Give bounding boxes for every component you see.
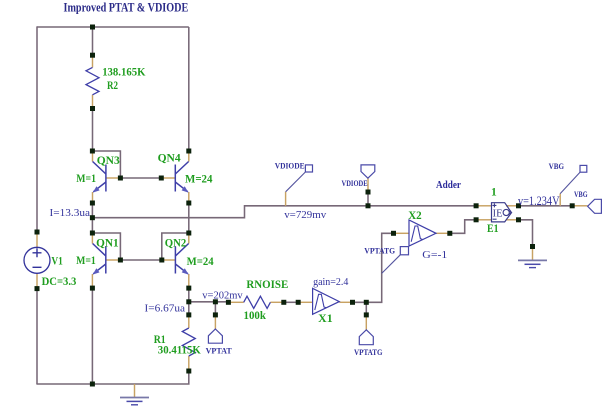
- wire QN3em-QN1col column: [91, 203, 93, 233]
- wire QN3 collector-base loop: [92, 151, 120, 178]
- pin lead QN3 emitter: [92, 192, 94, 203]
- pin lead ground E1: [532, 247, 534, 260]
- transistor QN1: [93, 244, 106, 274]
- wire E1 bottom output to ground: [519, 220, 533, 247]
- wire QN4em-QN2col: [188, 203, 190, 233]
- wire QN1 emitter column: [91, 288, 93, 384]
- pin lead QN2 collector: [188, 233, 190, 244]
- svg-text:v=1.234V: v=1.234V: [518, 193, 560, 208]
- pin lead RNOISE left: [228, 301, 243, 303]
- transistor QN3: [93, 162, 106, 192]
- wire R1 top link: [188, 302, 190, 315]
- ground E1: [518, 260, 547, 267]
- wire VPTATG branch: [365, 302, 367, 315]
- svg-text:RNOISE: RNOISE: [246, 279, 288, 291]
- junction and terminal dots: [35, 25, 575, 387]
- pin lead X1 input: [298, 301, 312, 303]
- pin lead R1 top: [188, 315, 190, 328]
- wire left column bottom: [36, 289, 38, 384]
- svg-text:V1: V1: [51, 255, 63, 267]
- pin lead V1 top: [36, 232, 38, 247]
- pin lead X2 output: [436, 232, 450, 234]
- svg-text:VBG: VBG: [574, 189, 588, 199]
- svg-text:Improved PTAT & VDIODE: Improved PTAT & VDIODE: [64, 1, 189, 15]
- svg-text:G=-1: G=-1: [422, 249, 447, 261]
- svg-text:M=1: M=1: [76, 173, 96, 185]
- flag square VDIODE: [305, 165, 312, 172]
- svg-text:X2: X2: [408, 210, 422, 222]
- svg-text:v=202mv: v=202mv: [202, 289, 243, 301]
- wire RNOISE to X1: [284, 301, 298, 303]
- port VDIODE pentagon: [361, 165, 375, 178]
- pin lead ground bottom: [134, 384, 136, 397]
- pin lead R2 top: [92, 55, 94, 67]
- wire base QN1-QN2: [120, 259, 161, 261]
- arrow QN3 emitter: [93, 186, 100, 192]
- svg-text:M=1: M=1: [76, 255, 96, 267]
- pin lead VPTATG port: [365, 315, 367, 330]
- wire VDIODE net: [92, 206, 476, 218]
- svg-text:QN2: QN2: [165, 237, 187, 249]
- svg-text:M=24: M=24: [185, 174, 213, 186]
- pin lead RNOISE right: [270, 301, 283, 303]
- wire VPTAT branch: [214, 302, 216, 315]
- pin lead QN4 emitter: [188, 192, 190, 203]
- wire R2 top link: [92, 27, 94, 55]
- pin lead E1 output minus: [506, 219, 519, 221]
- pin lead QN2 base: [162, 259, 176, 261]
- wire top rail: [37, 26, 189, 28]
- svg-text:VDIODE: VDIODE: [342, 178, 368, 188]
- transistor QN4: [175, 162, 188, 192]
- pin lead E1 input plus: [476, 205, 491, 207]
- svg-text:M=24: M=24: [187, 256, 214, 268]
- wire QN1 collector-base loop: [92, 233, 120, 260]
- svg-text:I=6.67ua: I=6.67ua: [145, 303, 186, 315]
- pin lead VPTAT port: [214, 315, 216, 329]
- arrow QN2 emitter: [182, 268, 189, 274]
- svg-text:VDIODE: VDIODE: [275, 161, 305, 171]
- flag square VBG: [580, 165, 587, 172]
- svg-text:100k: 100k: [244, 310, 267, 322]
- pin lead E1 input minus: [476, 219, 491, 221]
- controlled source E1: [492, 203, 512, 222]
- ground bottom: [120, 398, 149, 405]
- wire v202 row: [189, 301, 229, 303]
- resistor RNOISE: [244, 296, 271, 308]
- svg-text:138.165K: 138.165K: [102, 67, 145, 79]
- op-amp X1: [313, 288, 340, 314]
- wire X1 out to X2 in: [353, 233, 394, 302]
- svg-text:QN4: QN4: [158, 152, 181, 164]
- svg-text:IE: IE: [493, 208, 503, 219]
- svg-text:QN3: QN3: [97, 155, 120, 167]
- svg-text:1: 1: [491, 186, 497, 198]
- svg-text:VPTATG: VPTATG: [364, 246, 395, 256]
- wire base QN3-QN4: [120, 177, 161, 179]
- svg-text:gain=2.4: gain=2.4: [313, 277, 348, 288]
- svg-text:v=729mv: v=729mv: [284, 209, 326, 221]
- wire QN4 collector column: [188, 27, 190, 151]
- svg-text:VPTAT: VPTAT: [206, 346, 232, 356]
- wire VDIODE port link: [367, 192, 369, 206]
- resistor R1: [182, 328, 195, 356]
- pin lead VBG port: [572, 205, 587, 207]
- svg-text:R2: R2: [107, 80, 118, 92]
- flag square VPTATG: [400, 247, 408, 255]
- svg-text:X1: X1: [318, 313, 333, 325]
- svg-text:QN1: QN1: [96, 237, 119, 249]
- pin lead QN1 emitter: [91, 274, 93, 288]
- flag diagonal VPTATG: [382, 255, 401, 274]
- pin lead X1 output: [339, 301, 352, 303]
- flag diagonal VBG: [560, 172, 580, 193]
- port VPTATG pentagon: [359, 330, 373, 345]
- pin lead E1 output plus: [506, 205, 519, 207]
- arrow QN1 emitter: [93, 268, 100, 274]
- wire X2 out to E1: [450, 220, 476, 234]
- wire QN2 collector-base loop: [162, 233, 189, 260]
- voltage source V1: [24, 247, 50, 273]
- pin lead QN4 base: [161, 177, 175, 179]
- svg-text:DC=3.3: DC=3.3: [42, 276, 77, 288]
- flag stub VDIODE: [285, 192, 287, 206]
- pin lead QN3 collector: [92, 151, 94, 162]
- flag diagonal VDIODE: [286, 172, 306, 192]
- wire left column top: [36, 26, 38, 232]
- transistor QN2: [175, 244, 188, 274]
- arrow QN4 emitter: [182, 186, 189, 192]
- pin lead V1 bottom: [36, 273, 38, 288]
- pin lead R1 bottom: [188, 356, 190, 371]
- port VBG pentagon: [588, 199, 602, 213]
- wire bottom rail: [36, 371, 188, 384]
- pin lead R2 bottom: [92, 95, 94, 109]
- wire QN2 emitter column: [188, 288, 190, 302]
- pin lead X2 input: [394, 232, 410, 234]
- svg-text:Adder: Adder: [436, 179, 461, 191]
- op-amp X2: [409, 220, 436, 246]
- svg-text:30.4115K: 30.4115K: [158, 345, 201, 357]
- pin lead QN1 collector: [91, 233, 93, 244]
- pin lead QN2 emitter: [188, 274, 190, 288]
- svg-text:I=13.3ua: I=13.3ua: [50, 207, 91, 219]
- pin lead QN4 collector: [188, 151, 190, 162]
- pin lead QN1 base: [106, 259, 121, 261]
- wire E1 output: [519, 205, 573, 207]
- flag stub VBG: [559, 194, 561, 206]
- port VPTAT pentagon: [208, 329, 222, 343]
- resistor R2: [86, 67, 99, 94]
- svg-text:E1: E1: [487, 223, 499, 235]
- wire R2 bottom link: [92, 109, 94, 152]
- pin lead QN3 base: [106, 177, 121, 179]
- svg-text:VPTATG: VPTATG: [354, 347, 383, 357]
- svg-text:VBG: VBG: [549, 161, 565, 171]
- pin lead VDIODE port: [367, 178, 369, 192]
